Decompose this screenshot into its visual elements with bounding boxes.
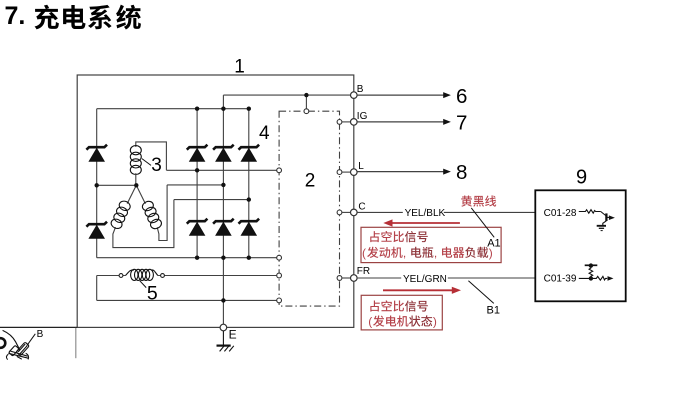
svg-text:7.: 7. [5, 2, 26, 30]
node: bus-col1 [195, 107, 199, 111]
red note box: duty signal (alternator status) [361, 295, 442, 330]
wire: rectifier column 3 [248, 109, 250, 258]
wire: stator phase tap 1 [136, 142, 277, 170]
node: bus-col3 [247, 107, 251, 111]
node: phase2-col2 [221, 183, 225, 187]
svg-text:YEL/BLK: YEL/BLK [405, 208, 446, 219]
label 3 [142, 155, 162, 176]
regulator terminal FR [337, 276, 342, 281]
wire: FR to ECM (YEL/GRN) [357, 277, 535, 279]
node: B line / regulator stub [304, 93, 308, 97]
pull-up supply bar [585, 264, 598, 266]
leader to connector A1 [471, 208, 494, 237]
ground at E [217, 331, 234, 352]
wire: stub to regulator top terminal [305, 95, 307, 109]
svg-text:9: 9 [576, 167, 587, 189]
node: bottombus-col2 [221, 256, 225, 260]
regulator terminal phase [277, 168, 282, 173]
arrow (FR monitor signal) [608, 276, 614, 281]
label B (battery terminal) [27, 329, 44, 346]
node: star point [134, 183, 138, 187]
svg-text:,: , [403, 246, 406, 260]
regulator box 2 (dash-dot) [279, 111, 339, 306]
terminal B [351, 84, 364, 98]
terminal FR [351, 266, 371, 281]
svg-text:3: 3 [151, 155, 162, 176]
svg-text:5: 5 [147, 282, 158, 304]
zener diode left top [86, 145, 107, 162]
svg-text:E: E [229, 328, 237, 342]
red note box: duty signal (engine, battery, loads) [361, 227, 501, 262]
svg-text:A1: A1 [487, 238, 500, 250]
output arrow to 6 [357, 85, 467, 108]
alternator illustration (cropped) [0, 330, 29, 359]
red arrow (duty signal to alternator) [383, 219, 460, 226]
svg-text:C01-39: C01-39 [544, 274, 577, 285]
wire: bottom bus [97, 257, 277, 259]
wire: C to ECM (YEL/BLK) [357, 211, 535, 213]
leader to connector B1 [468, 281, 493, 304]
regulator terminal DC [277, 255, 282, 260]
svg-text:8: 8 [456, 161, 467, 184]
title "7. 充电系统" [5, 2, 141, 30]
svg-text:B: B [37, 329, 44, 340]
node: phase1-col1 [195, 168, 199, 172]
coil 5 loops [126, 269, 158, 280]
wire: regulator to IG terminal [342, 121, 351, 123]
regulator terminal coil5 a [277, 273, 282, 278]
node: coil5 lower - earth column [221, 298, 225, 302]
ECM box 9 [535, 190, 625, 301]
wire: regulator to C terminal [342, 211, 351, 213]
alternator box 1 [77, 75, 354, 327]
node on supply bar [589, 263, 593, 267]
wire: regulator to FR terminal [342, 277, 351, 279]
node: bus-col2 [221, 107, 225, 111]
svg-text:C: C [358, 202, 365, 213]
svg-text:B1: B1 [487, 305, 500, 317]
svg-text:6: 6 [456, 85, 467, 108]
svg-text:4: 4 [259, 123, 270, 144]
red arrow (duty signal to ECM) [383, 287, 461, 294]
wire: rectifier column 1 [196, 109, 198, 258]
wire: rectifier column 2 / earth column [222, 109, 224, 325]
rectifier diode bottom 3 [239, 219, 260, 236]
pull-up resistor [589, 266, 593, 277]
coil 5 right pigtail circle [161, 274, 165, 278]
stator winding left [110, 185, 137, 230]
label 5 [140, 281, 158, 305]
svg-text:YEL/GRN: YEL/GRN [403, 274, 447, 285]
svg-text:(: ( [362, 246, 366, 260]
rectifier diode top 3 [239, 145, 260, 162]
svg-text:(: ( [368, 315, 372, 329]
figure frame vertical (gray) [75, 328, 77, 358]
wire: top positive bus [97, 108, 249, 110]
node: bottombus-col1 [195, 256, 199, 260]
svg-text:7: 7 [456, 112, 467, 135]
node: bottombus-col3 [247, 256, 251, 260]
field coil 3 [130, 146, 141, 186]
regulator terminal IG [337, 120, 342, 125]
stator winding right [136, 185, 163, 230]
wire: stator phase tap 2 [157, 185, 223, 241]
label 黄黑线 (red) [461, 195, 496, 206]
svg-text:2: 2 [305, 170, 316, 191]
suppression coil 5 circuit [97, 276, 277, 301]
svg-text:1: 1 [234, 57, 245, 78]
regulator terminal coil5 b [277, 298, 282, 303]
wire: B output line [223, 95, 350, 109]
node: phase3-col3 [247, 197, 251, 201]
svg-text:,: , [434, 246, 437, 260]
terminal E [220, 324, 237, 341]
output arrow to 8 [357, 161, 467, 184]
terminal C [351, 202, 366, 216]
rectifier diode top 1 [187, 145, 208, 162]
ground (ECM) [597, 226, 606, 231]
wire: stator phase tap 3 [113, 200, 249, 248]
wire: regulator to L terminal [342, 171, 351, 173]
svg-text:FR: FR [357, 266, 370, 277]
transistor Q (ECM driver) [601, 212, 615, 226]
rectifier diode top 2 [213, 145, 234, 162]
regulator terminal L [337, 170, 342, 175]
regulator terminal C [337, 210, 342, 215]
wire: zener leg [96, 109, 98, 258]
terminal L [351, 161, 365, 175]
svg-text:L: L [358, 161, 364, 172]
resistor (C01-39 series) [579, 276, 607, 280]
svg-text:C01-28: C01-28 [544, 208, 577, 219]
figure baseline (cropped photo frame) [0, 326, 77, 328]
zener diode left bottom [86, 222, 107, 239]
regulator terminal top [304, 109, 309, 114]
svg-text:IG: IG [357, 111, 368, 122]
node: neutral-zener [95, 183, 99, 187]
svg-text:B: B [357, 84, 364, 95]
terminal IG [351, 111, 368, 125]
rectifier diode bottom 2 [213, 219, 234, 236]
node C01-39 junction [589, 276, 593, 280]
output arrow to 7 [357, 112, 467, 135]
wire: neutral link [97, 184, 137, 186]
resistor (C01-28 input) [579, 210, 601, 214]
coil 5 left pigtail circle [119, 274, 123, 278]
rectifier diode bottom 1 [187, 219, 208, 236]
svg-text:): ) [433, 315, 437, 329]
